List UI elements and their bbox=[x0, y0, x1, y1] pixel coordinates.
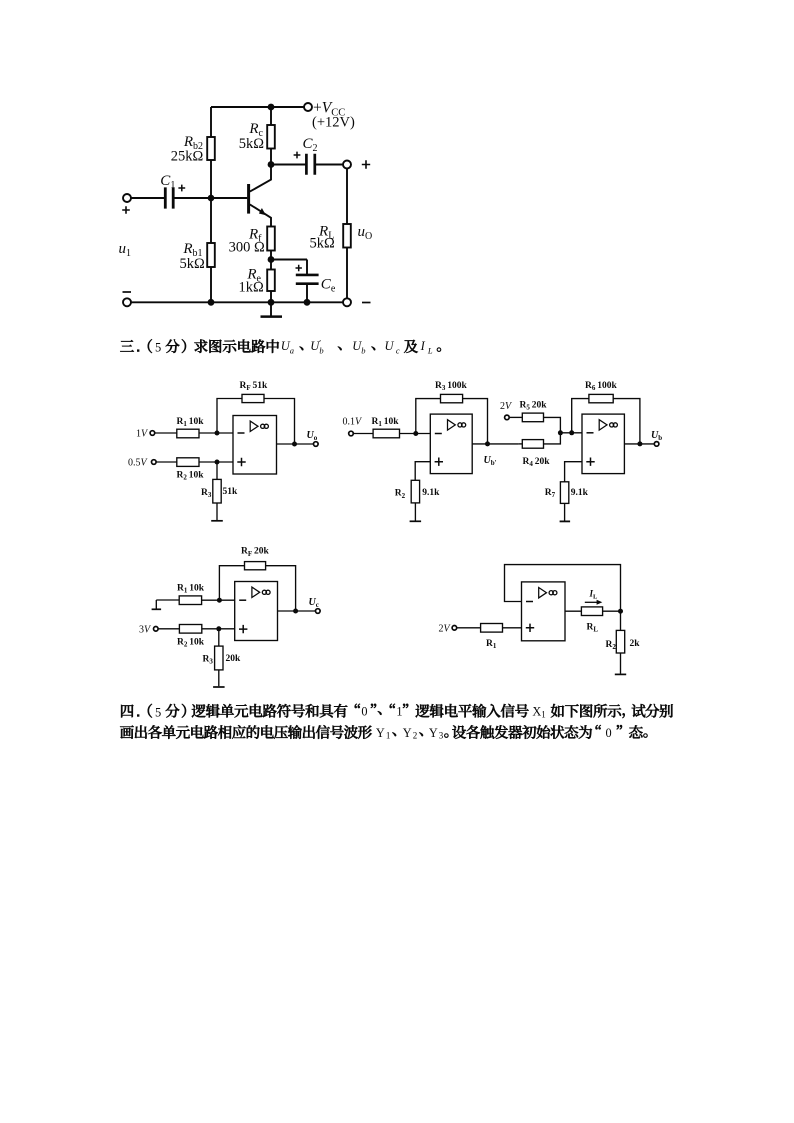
wire output (ckt1) bbox=[277, 443, 314, 445]
wire C2 to output bbox=[315, 164, 343, 166]
wire feedback to output (ckt1) bbox=[264, 399, 295, 445]
resistor R5 (ckt2) bbox=[522, 413, 543, 422]
svg-text:0: 0 bbox=[606, 726, 612, 740]
ground (ckt4) bbox=[615, 673, 626, 675]
node output A (ckt2) bbox=[485, 441, 490, 446]
resistor Rb2 bbox=[207, 137, 215, 160]
svg-text:u1: u1 bbox=[119, 241, 132, 259]
svg-text:RL: RL bbox=[587, 623, 599, 634]
problem text section 3 heading bbox=[120, 338, 441, 356]
transistor Q1 emitter bbox=[250, 204, 271, 226]
svg-text:Ub: Ub bbox=[651, 430, 662, 442]
terminal 2V input (ckt4) bbox=[452, 626, 457, 631]
terminal 0.5V input bbox=[152, 460, 157, 465]
svg-text:R1 10k: R1 10k bbox=[177, 417, 205, 428]
resistor R6 (ckt2) bbox=[589, 394, 613, 402]
wire output to RL (ckt4) bbox=[565, 610, 581, 612]
terminal output Uo (ckt1) bbox=[314, 442, 319, 447]
node rail-Rb1 bbox=[208, 299, 215, 306]
svg-text:U: U bbox=[385, 339, 395, 353]
svg-text:Uc: Uc bbox=[309, 597, 319, 609]
svg-text:(+12V): (+12V) bbox=[312, 115, 355, 131]
op-amp U2A bbox=[430, 414, 472, 474]
wire Rc top bbox=[270, 107, 272, 125]
svg-text:0.1V: 0.1V bbox=[343, 417, 364, 428]
svg-text:5kΩ: 5kΩ bbox=[180, 256, 206, 272]
svg-text:9.1k: 9.1k bbox=[571, 488, 589, 498]
svg-text:b: b bbox=[361, 345, 365, 355]
resistor RL bbox=[343, 224, 351, 248]
wire feedback up A (ckt2) bbox=[416, 399, 441, 434]
wire output down bbox=[346, 169, 348, 225]
op-amp U1 bbox=[233, 416, 277, 475]
svg-text:R2 10k: R2 10k bbox=[177, 471, 205, 482]
op-amp U2B bbox=[582, 414, 624, 474]
wire feedback to output B (ckt2) bbox=[613, 399, 640, 444]
capacitor Ce bbox=[296, 275, 319, 284]
wire node to R2 (ckt4) bbox=[620, 611, 622, 630]
wire R7 to ground (ckt2) bbox=[564, 503, 566, 520]
resistor RL (ckt4) bbox=[581, 607, 602, 616]
svg-text:Y: Y bbox=[376, 726, 385, 740]
wire 2V to R5 bbox=[509, 416, 522, 418]
svg-text:L: L bbox=[427, 345, 433, 355]
node output (ckt4) bbox=[618, 609, 623, 614]
svg-text:5kΩ: 5kΩ bbox=[310, 236, 336, 252]
svg-text:R2 10k: R2 10k bbox=[177, 638, 205, 649]
ground bbox=[270, 304, 272, 316]
resistor RF (ckt3) bbox=[245, 562, 266, 570]
wire C1 to base bbox=[174, 197, 248, 199]
label Ce plus bbox=[296, 265, 302, 271]
resistor Rf bbox=[267, 227, 275, 251]
wire R1 to inverting (ckt3) bbox=[202, 599, 235, 601]
svg-text:2: 2 bbox=[413, 731, 418, 741]
resistor R4 (ckt2) bbox=[522, 440, 543, 449]
wire output A (ckt2) bbox=[472, 443, 518, 445]
ground R2 (ckt2) bbox=[410, 520, 422, 522]
node B1 (ckt2) bbox=[558, 430, 563, 435]
label output plus bbox=[362, 160, 370, 168]
svg-text:51k: 51k bbox=[223, 487, 239, 497]
resistor Re bbox=[267, 270, 275, 292]
wire R3 to ground (ckt3) bbox=[218, 670, 220, 686]
svg-text:300 Ω: 300 Ω bbox=[229, 240, 265, 256]
terminal 2V input (ckt2) bbox=[505, 415, 510, 420]
op-amp U3 bbox=[235, 582, 278, 641]
svg-text:5: 5 bbox=[155, 705, 161, 719]
resistor R7 (ckt2) bbox=[560, 482, 568, 504]
node B2 (ckt2) bbox=[569, 430, 574, 435]
wire R3 to ground (ckt1) bbox=[216, 503, 218, 520]
svg-text:Uo: Uo bbox=[307, 430, 318, 442]
node inverting input (ckt1) bbox=[215, 431, 220, 436]
wire output (ckt3) bbox=[278, 610, 316, 612]
svg-text:C2: C2 bbox=[303, 136, 318, 154]
wire top supply rail bbox=[211, 106, 304, 108]
svg-text:3V: 3V bbox=[139, 625, 152, 636]
wire Ce to ground rail bbox=[306, 284, 308, 302]
wire Rf to Re bbox=[270, 251, 272, 270]
wire Rb1 to ground rail bbox=[210, 267, 212, 302]
wire node to R3 (ckt3) bbox=[218, 629, 220, 646]
wire Rb2 to base node bbox=[210, 160, 212, 243]
node collector-supply junction bbox=[268, 104, 275, 111]
problem text section 4 heading line 2 bbox=[120, 725, 647, 741]
resistor R3 (ckt3) bbox=[215, 646, 223, 670]
wire 0.5V to R2 bbox=[156, 461, 177, 463]
wire R2 to noninverting node bbox=[199, 461, 233, 463]
transistor Q1 collector bbox=[250, 165, 271, 192]
wire Re to ground rail bbox=[270, 291, 272, 302]
svg-text:1: 1 bbox=[396, 705, 402, 719]
svg-text:0.5V: 0.5V bbox=[128, 458, 149, 469]
wire RL to node (ckt4) bbox=[603, 610, 621, 612]
svg-text:Y: Y bbox=[429, 726, 438, 740]
resistor R2 (ckt2) bbox=[411, 480, 419, 503]
svg-text:1kΩ: 1kΩ bbox=[239, 279, 265, 295]
svg-text:R7: R7 bbox=[545, 488, 556, 499]
wire R2 to ground (ckt4) bbox=[620, 653, 622, 674]
svg-text:R6 100k: R6 100k bbox=[585, 381, 618, 392]
resistor R1 (ckt1) bbox=[177, 429, 199, 438]
wire feedback to output A (ckt2) bbox=[463, 399, 488, 444]
wire 0.1V to R1 bbox=[353, 433, 373, 435]
resistor R1 (ckt4) bbox=[481, 624, 503, 633]
svg-text:1V: 1V bbox=[136, 429, 149, 440]
wire input to C1 bbox=[131, 197, 165, 199]
wire Rc to collector bbox=[270, 149, 272, 165]
svg-text:R2: R2 bbox=[395, 489, 406, 500]
wire R1 to inverting node bbox=[199, 432, 233, 434]
svg-text:R5 20k: R5 20k bbox=[520, 401, 548, 412]
wire feedback (ckt4) bbox=[505, 565, 621, 612]
svg-text:b: b bbox=[319, 345, 323, 355]
label input plus bbox=[122, 206, 130, 214]
problem text section 4 heading line 1 bbox=[121, 704, 673, 720]
resistor R1 (ckt2) bbox=[373, 429, 399, 438]
wire RL to bottom bbox=[346, 248, 348, 299]
svg-text:Ce: Ce bbox=[321, 276, 336, 294]
node rail-Re bbox=[268, 299, 275, 306]
resistor R2 (ckt3) bbox=[179, 625, 201, 634]
transistor Q1 base bar bbox=[247, 184, 250, 214]
svg-text:5: 5 bbox=[155, 341, 161, 355]
wire node B to inverting (ckt2) bbox=[560, 432, 582, 434]
svg-text:c: c bbox=[396, 345, 400, 355]
resistor Rc bbox=[267, 125, 275, 149]
node output (ckt3) bbox=[293, 609, 298, 614]
svg-text:RF 51k: RF 51k bbox=[240, 381, 269, 392]
svg-text:uO: uO bbox=[358, 224, 373, 242]
wire node to R3 (ckt1) bbox=[216, 462, 218, 479]
resistor R2 (ckt4) bbox=[616, 630, 624, 653]
node base junction bbox=[208, 195, 215, 202]
svg-text:RF 20k: RF 20k bbox=[241, 547, 270, 558]
wire R4 to node B (ckt2) bbox=[544, 433, 561, 444]
svg-text:0: 0 bbox=[361, 705, 367, 719]
resistor R1 (ckt3) bbox=[179, 596, 201, 605]
svg-text:C1: C1 bbox=[160, 173, 175, 191]
svg-text:20k: 20k bbox=[226, 654, 242, 664]
svg-text:25kΩ: 25kΩ bbox=[171, 148, 204, 164]
svg-text:R3 100k: R3 100k bbox=[435, 381, 468, 392]
svg-text:3: 3 bbox=[439, 731, 444, 741]
resistor Rb1 bbox=[207, 243, 215, 267]
wire feedback to output (ckt3) bbox=[266, 566, 296, 611]
svg-text:2V: 2V bbox=[500, 401, 513, 412]
terminal 0.1V input bbox=[349, 431, 354, 436]
wire bottom ground rail bbox=[131, 301, 343, 303]
svg-text:1: 1 bbox=[386, 731, 391, 741]
node feedback-output (ckt1) bbox=[292, 442, 297, 447]
wire noninverting B to R7 (ckt2) bbox=[565, 462, 582, 482]
resistor R3 (ckt2) bbox=[441, 394, 463, 402]
wire feedback up (ckt1) bbox=[217, 399, 242, 434]
svg-text:9.1k: 9.1k bbox=[422, 488, 440, 498]
wire R5 to node B (ckt2) bbox=[544, 417, 561, 432]
svg-text:X: X bbox=[532, 705, 541, 719]
label IL arrow (ckt4) bbox=[585, 601, 599, 603]
svg-text:2k: 2k bbox=[630, 639, 641, 649]
ground R7 (ckt2) bbox=[560, 520, 571, 522]
svg-text:1: 1 bbox=[541, 709, 546, 719]
wire R2 to ground (ckt2) bbox=[414, 503, 416, 521]
label input minus bbox=[123, 291, 132, 293]
terminal output - bbox=[343, 298, 351, 306]
capacitor C1 bbox=[165, 187, 173, 208]
terminal output Uc (ckt3) bbox=[316, 609, 321, 614]
node noninverting (ckt3) bbox=[216, 626, 221, 631]
svg-text:R1 10k: R1 10k bbox=[177, 584, 205, 595]
terminal 1V input bbox=[150, 431, 155, 436]
svg-text:R1: R1 bbox=[486, 639, 497, 650]
svg-text:2V: 2V bbox=[439, 624, 452, 635]
node inverting (ckt3) bbox=[217, 598, 222, 603]
svg-text:R3: R3 bbox=[203, 655, 214, 666]
svg-text:5kΩ: 5kΩ bbox=[239, 136, 265, 152]
terminal input + bbox=[123, 194, 131, 202]
svg-text:R1 10k: R1 10k bbox=[372, 417, 400, 428]
wire emitter node to Ce bbox=[271, 260, 307, 275]
node output B (ckt2) bbox=[637, 441, 642, 446]
node emitter junction bbox=[268, 256, 275, 263]
terminal 3V input (ckt3) bbox=[154, 627, 159, 632]
label output minus bbox=[362, 302, 371, 304]
wire R1 to inverting node (ckt2) bbox=[400, 433, 431, 435]
terminal +Vcc bbox=[304, 103, 312, 111]
svg-text:a: a bbox=[290, 345, 294, 355]
svg-text:IL: IL bbox=[589, 589, 599, 601]
svg-text:R4 20k: R4 20k bbox=[523, 457, 551, 468]
wire 3V to R2 (ckt3) bbox=[158, 628, 179, 630]
svg-text:Ub′: Ub′ bbox=[484, 455, 497, 467]
terminal input - bbox=[123, 298, 131, 306]
node rail-Ce bbox=[304, 299, 311, 306]
svg-text:R3: R3 bbox=[201, 488, 212, 499]
wire gnd stub to R1 (ckt3) bbox=[156, 599, 179, 601]
wire R2 to noninverting (ckt3) bbox=[202, 628, 235, 630]
wire feedback up (ckt3) bbox=[219, 566, 244, 601]
terminal output + bbox=[343, 161, 351, 169]
wire noninverting A to R2 (ckt2) bbox=[415, 462, 430, 481]
wire Rb2 top bbox=[210, 107, 212, 137]
ground (ckt1) bbox=[211, 520, 223, 522]
wire 1V to R1 bbox=[155, 432, 177, 434]
resistor RF (ckt1) bbox=[242, 394, 264, 402]
node inverting input A (ckt2) bbox=[413, 431, 418, 436]
wire R1 to noninverting (ckt4) bbox=[503, 627, 522, 629]
terminal output Ub (ckt2) bbox=[654, 442, 659, 447]
wire collector to C2 bbox=[271, 164, 306, 166]
node collector junction bbox=[268, 161, 275, 168]
svg-text:I: I bbox=[420, 339, 426, 353]
op-amp U4 bbox=[522, 582, 566, 641]
resistor R3 (ckt1) bbox=[213, 479, 221, 503]
wire output B (ckt2) bbox=[624, 443, 654, 445]
svg-text:R2: R2 bbox=[606, 640, 617, 651]
wire 2V to R1 (ckt4) bbox=[457, 627, 481, 629]
capacitor C2 bbox=[306, 154, 314, 175]
resistor R2 (ckt1) bbox=[177, 458, 199, 467]
ground (ckt3) bbox=[213, 686, 225, 688]
wire feedback up B (ckt2) bbox=[572, 399, 589, 433]
wire outputA to R4 (ckt2) bbox=[519, 443, 523, 445]
svg-text:Y: Y bbox=[403, 726, 412, 740]
node noninverting input (ckt1) bbox=[215, 460, 220, 465]
ground stub input (ckt3) bbox=[155, 600, 157, 609]
